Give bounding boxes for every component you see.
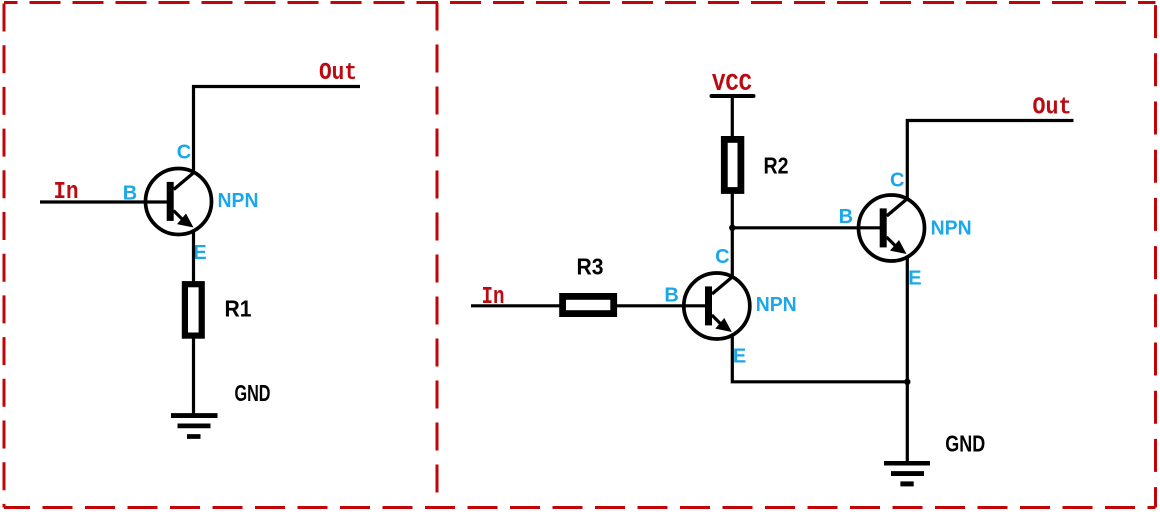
svg-text:C: C	[890, 169, 904, 191]
transistor Q (left): emitter stroke with arrow	[174, 211, 184, 221]
transistor Q1: collector stroke	[712, 277, 733, 295]
wire: In to base	[40, 200, 168, 203]
svg-text:NPN: NPN	[756, 294, 797, 316]
svg-text:Out: Out	[1033, 95, 1072, 122]
svg-text:NPN: NPN	[218, 190, 259, 212]
transistor Q (left) NPN: circle	[146, 169, 212, 235]
svg-text:VCC: VCC	[712, 71, 752, 98]
wire: node to Q2 base	[732, 226, 880, 229]
dashed red outer border: top-left segment	[4, 1, 437, 4]
wire: Q2 collector to Out	[907, 121, 1073, 201]
dashed red outer border: bottom edge	[4, 506, 1156, 509]
wire: In to R3	[471, 304, 560, 307]
transistor Q2 NPN: circle	[859, 195, 925, 261]
transistor Q2: collector stroke	[887, 199, 908, 217]
svg-text:E: E	[733, 346, 746, 368]
svg-text:B: B	[664, 284, 678, 306]
resistor R3	[563, 296, 614, 313]
ground symbol (right)	[884, 461, 930, 466]
transistor Q1: emitter stroke with arrow	[712, 315, 722, 325]
transistor Q2: emitter stroke with arrow	[887, 237, 897, 247]
wire: Q2 emitter to ground	[906, 257, 909, 463]
transistor Q2: base bar	[880, 208, 887, 247]
dashed red outer border: top-right segment	[437, 1, 1156, 4]
dashed red outer border: right edge	[1154, 3, 1157, 508]
transistor Q (left): base bar	[167, 182, 174, 221]
junction node dot (emitters)	[904, 379, 910, 385]
svg-text:R3: R3	[577, 254, 604, 280]
dashed red divider between circuits	[436, 3, 439, 508]
svg-text:C: C	[177, 142, 191, 164]
svg-text:Out: Out	[319, 60, 357, 87]
svg-text:B: B	[839, 206, 853, 228]
transistor Q1: base bar	[705, 286, 712, 325]
ground symbol (left)	[171, 413, 218, 418]
wire: VCC to R2	[731, 96, 734, 136]
svg-text:R2: R2	[764, 152, 789, 178]
wire: R1 to ground	[192, 337, 195, 415]
svg-text:C: C	[715, 246, 729, 268]
resistor R1	[185, 284, 202, 335]
transistor Q (left): collector stroke	[174, 172, 195, 190]
wire: R3 to Q1 base	[617, 304, 706, 307]
wire: emitter to R1	[192, 230, 195, 284]
svg-text:NPN: NPN	[931, 218, 972, 240]
svg-text:GND: GND	[235, 380, 271, 406]
junction node dot	[729, 225, 735, 231]
svg-text:E: E	[193, 242, 206, 264]
wire: collector to Out	[194, 87, 361, 174]
resistor R2	[724, 139, 741, 190]
svg-text:B: B	[123, 183, 137, 205]
svg-text:R1: R1	[225, 296, 252, 322]
svg-text:GND: GND	[945, 430, 985, 456]
VCC rail bar	[712, 94, 754, 98]
transistor Q1 NPN: circle	[684, 273, 750, 339]
dashed red outer border: left edge	[3, 3, 6, 508]
wire: R2 to Q1 collector	[731, 194, 734, 278]
wire: Q1 emitter down and right	[732, 335, 907, 382]
svg-text:E: E	[908, 267, 921, 289]
